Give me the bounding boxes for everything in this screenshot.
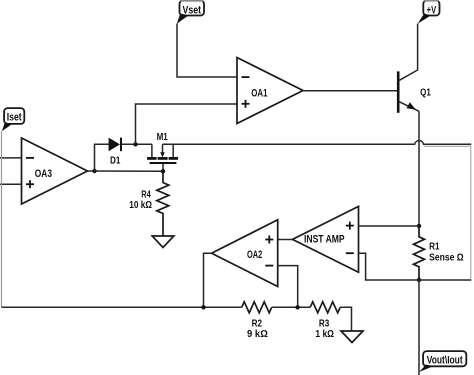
flag Vset <box>177 1 204 24</box>
op-amp OA2 <box>212 220 278 287</box>
wire: INST AMP output to OA2 + input <box>278 239 293 241</box>
svg-text:D1: D1 <box>110 155 121 166</box>
resistor R2 9 kΩ <box>242 302 272 340</box>
node: D1 / OA1 feedback junction <box>133 142 137 146</box>
wire: OA2 - input feedback down to R2/R3 junction <box>278 266 298 308</box>
svg-text:Q1: Q1 <box>420 88 431 99</box>
wire: OA1 output to Q1 base <box>303 90 397 92</box>
svg-text:R4: R4 <box>141 189 151 200</box>
wire: grey return loop (right side) <box>424 146 471 279</box>
resistor R1 Sense Ω <box>414 226 464 280</box>
svg-text:10 kΩ: 10 kΩ <box>129 200 152 211</box>
wire: +V to Q1 collector <box>399 24 417 81</box>
svg-text:R1: R1 <box>429 242 440 253</box>
op-amp OA3 <box>22 138 88 204</box>
node: R1 bottom junction <box>417 278 421 282</box>
wire: Vset to OA1 inverting input <box>177 24 237 78</box>
svg-text:9 kΩ: 9 kΩ <box>247 329 268 340</box>
svg-text:Iset: Iset <box>7 112 22 124</box>
diode D1 <box>109 138 121 167</box>
svg-text:M1: M1 <box>157 132 168 143</box>
wire: Q1 emitter down to R1 <box>418 111 420 226</box>
svg-text:Sense Ω: Sense Ω <box>429 252 464 263</box>
svg-text:OA1: OA1 <box>251 87 267 99</box>
svg-text:1 kΩ: 1 kΩ <box>315 329 334 340</box>
svg-text:R3: R3 <box>319 319 330 330</box>
flag +V <box>418 1 440 24</box>
transistor Q1 (NPN) <box>398 71 431 112</box>
wire: grey Iset net (left edge) <box>1 131 3 307</box>
ground (below R4) <box>152 236 174 248</box>
wire: R3 to ground <box>340 307 351 331</box>
node: R2/R3 junction (OA2 feedback) <box>295 305 299 309</box>
wire: OA3 output up to D1 anode <box>95 144 109 171</box>
wire: OA2 output left and down to bottom rail <box>204 253 212 307</box>
svg-text:OA2: OA2 <box>247 249 262 261</box>
op-amp OA1 <box>237 58 303 124</box>
transistor M1 (NMOS) <box>147 132 178 171</box>
resistor R4 10 kΩ <box>129 171 169 236</box>
flag Iset <box>2 108 25 131</box>
svg-text:Vout\Iout: Vout\Iout <box>427 355 463 367</box>
svg-text:Vset: Vset <box>183 4 202 16</box>
wire: output rail right segment at R1 bottom <box>419 279 471 281</box>
resistor R3 1 kΩ <box>310 302 340 340</box>
wire: INST AMP - input to R1 bottom <box>359 253 420 280</box>
wire: M1 source/body run to output rail (hops over emitter wire) <box>163 141 472 145</box>
svg-text:+V: +V <box>427 4 437 16</box>
wire: OA3 non-inverting input stub (clipped at left edge) <box>0 183 22 185</box>
node: M1 gate / R4 junction <box>161 169 165 173</box>
svg-text:OA3: OA3 <box>35 168 52 180</box>
wire: OA3 inverting input stub (clipped at left edge) <box>0 157 22 159</box>
wire: D1 cathode to M1 drain <box>122 143 152 145</box>
ground (below R3) <box>341 331 363 343</box>
wire: INST AMP + input to R1 top <box>359 225 420 227</box>
svg-text:R2: R2 <box>252 319 263 330</box>
node: OA2 output junction on bottom rail <box>201 305 205 309</box>
node: R1 top junction <box>417 224 421 228</box>
svg-text:INST AMP: INST AMP <box>304 234 345 246</box>
wire: OA3 output to M1 gate node <box>88 170 164 172</box>
wire: bottom rail left segment <box>2 306 242 308</box>
flag Vout\Iout <box>419 351 466 372</box>
wire: feedback from node up to OA1 non-inverting input <box>136 104 238 144</box>
node: OA3 output junction <box>92 169 96 173</box>
instrumentation amplifier INST AMP <box>293 206 359 272</box>
wire: bottom rail between R2 and R3 <box>272 306 311 308</box>
wire: output to Vout\Iout (clipped at bottom) <box>418 280 420 375</box>
